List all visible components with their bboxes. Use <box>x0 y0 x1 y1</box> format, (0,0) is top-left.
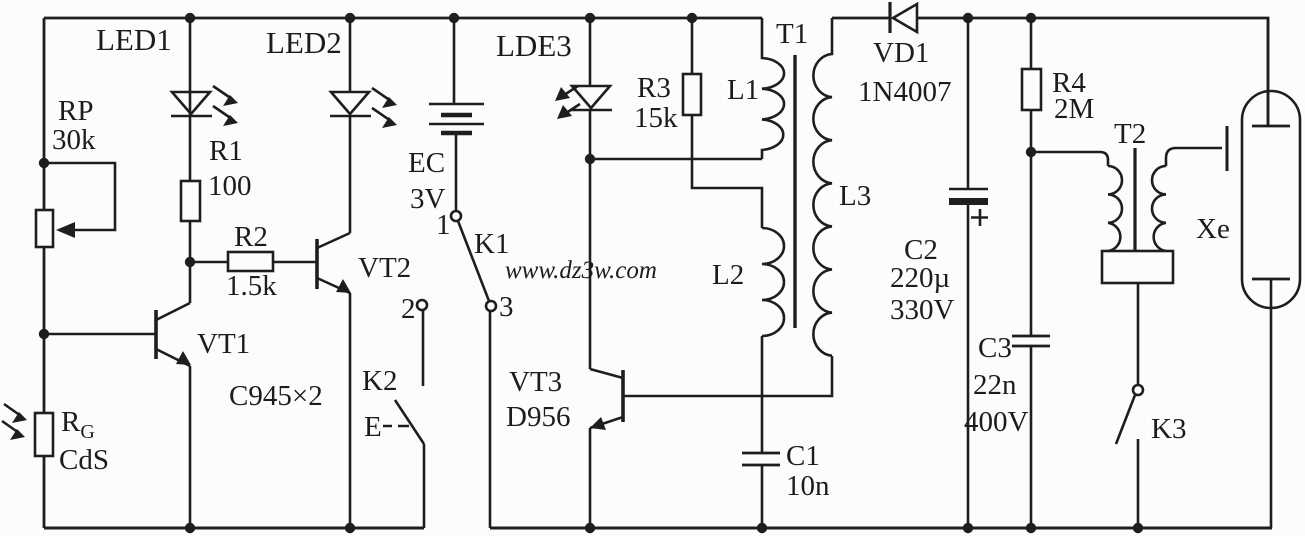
switch K3 blade <box>1116 395 1135 444</box>
inductor L2 (T1 primary lower) <box>762 228 784 336</box>
inductor L3 (T1 secondary) <box>813 18 832 356</box>
svg-text:R2: R2 <box>234 221 268 253</box>
wire R4 branch vertical <box>1030 18 1033 152</box>
wire top rail left section <box>44 17 762 20</box>
wire top rail right section (VD1 to xenon tube corner) <box>917 18 1268 126</box>
transformer T2 secondary coil <box>1152 166 1166 251</box>
svg-text:D956: D956 <box>506 401 570 433</box>
wire VT1 base horizontal <box>44 333 156 336</box>
svg-text:RG: RG <box>61 406 95 443</box>
svg-text:VT1: VT1 <box>197 328 250 360</box>
wire battery to K1 pole <box>455 133 458 211</box>
wire VT3 base to L3 bottom <box>623 356 832 396</box>
transformer T2 base box <box>1102 251 1173 283</box>
wire bottom rail right section <box>490 527 1272 530</box>
LED LED1 <box>172 92 210 114</box>
node top rail battery <box>449 13 459 23</box>
wire xenon tube bottom electrode stem <box>1270 279 1273 528</box>
battery EC 3V <box>429 103 484 106</box>
capacitor C2 (electrolytic) <box>949 188 988 191</box>
svg-text:C945×2: C945×2 <box>229 380 323 412</box>
svg-text:K2: K2 <box>362 365 397 397</box>
capacitor C1 <box>742 452 780 455</box>
wire K1 throw2 down to K2 <box>422 310 425 386</box>
xenon tube bottom electrode <box>1252 278 1290 281</box>
wire C2 branch vertical top <box>967 18 970 189</box>
transistor VT2 <box>315 239 319 289</box>
transformer T2 core <box>1133 148 1136 253</box>
svg-text:3: 3 <box>499 291 514 323</box>
switch K1 throw circle 3 <box>486 301 496 311</box>
svg-text:T2: T2 <box>1114 118 1146 150</box>
transistor VT3 <box>621 370 625 422</box>
photoresistor RG body <box>35 413 53 456</box>
switch K2 E dashes <box>383 425 409 428</box>
svg-text:100: 100 <box>208 170 252 202</box>
svg-text:LDE3: LDE3 <box>496 28 572 63</box>
wire RP wiper loop <box>44 163 115 230</box>
LED LED2 <box>331 92 369 114</box>
resistor R1 body <box>181 181 200 221</box>
xenon tube Xe envelope <box>1242 91 1300 308</box>
svg-text:220µ: 220µ <box>890 262 950 294</box>
svg-text:2M: 2M <box>1054 93 1094 125</box>
svg-text:T1: T1 <box>776 18 808 50</box>
wire R2 connections <box>190 261 317 264</box>
svg-text:1: 1 <box>436 209 451 241</box>
wire C1 bottom to ground rail <box>761 465 764 528</box>
wire R4 junction to T2 primary <box>1031 152 1108 166</box>
xenon tube trigger electrode bar <box>1226 126 1229 171</box>
svg-text:1.5k: 1.5k <box>226 270 277 302</box>
wire LED3 cathode to L1 bottom <box>590 158 762 161</box>
wire bottom rail left section <box>44 527 424 530</box>
wire K1 throw3 to right ground rail <box>489 311 492 528</box>
resistor R2 body <box>228 252 273 271</box>
svg-text:VT3: VT3 <box>509 366 562 398</box>
node LED3 cathode <box>585 154 595 164</box>
node ground C2 <box>963 523 973 533</box>
switch K3 pole circle <box>1133 385 1143 395</box>
svg-text:330V: 330V <box>890 294 955 326</box>
svg-text:L3: L3 <box>839 180 871 212</box>
svg-text:C3: C3 <box>978 332 1012 364</box>
svg-text:22n: 22n <box>973 369 1017 401</box>
capacitor C3 <box>1012 335 1050 338</box>
svg-text:LED2: LED2 <box>266 25 342 60</box>
node ground VT1 emitter <box>185 523 195 533</box>
svg-text:E: E <box>364 411 382 443</box>
svg-text:LED1: LED1 <box>96 22 172 57</box>
wire VT1 collector vertical <box>189 262 192 303</box>
switch K1 throw circle 2 <box>417 300 427 310</box>
node top rail R3 <box>687 13 697 23</box>
svg-text:C1: C1 <box>786 440 820 472</box>
svg-text:Xe: Xe <box>1196 213 1230 245</box>
wire top rail L3 to VD1 <box>832 17 891 20</box>
wire left edge vertical <box>43 18 46 528</box>
wire R4 junction down through C3 <box>1030 152 1033 528</box>
svg-text:10n: 10n <box>786 470 830 502</box>
wire C2 bottom to ground rail <box>967 204 970 528</box>
wire xenon tube top electrode stem <box>1267 18 1270 126</box>
LDE3 light arrows <box>555 86 580 119</box>
switch K1 pole circle 1 <box>451 211 461 221</box>
svg-text:R1: R1 <box>209 135 243 167</box>
node top rail LDE3 <box>585 13 595 23</box>
node ground C3 <box>1026 523 1036 533</box>
node R4 bottom T2 tap <box>1026 147 1036 157</box>
node top rail LED1 <box>185 13 195 23</box>
potentiometer RP body <box>36 210 53 247</box>
node ground VT2 emitter <box>345 523 355 533</box>
svg-text:K1: K1 <box>474 228 509 260</box>
transformer T2 primary coil <box>1108 166 1122 251</box>
svg-text:1N4007: 1N4007 <box>858 76 951 108</box>
node top rail C2 <box>963 13 973 23</box>
wire K2 to left ground rail <box>423 444 426 528</box>
svg-text:400V: 400V <box>964 406 1029 438</box>
node ground K3 <box>1133 523 1143 533</box>
resistor R3 body <box>683 74 701 115</box>
wire K3 lower contact to ground rail <box>1137 439 1140 528</box>
wire VT3 collector vertical <box>589 159 592 369</box>
wire battery branch vertical <box>453 18 456 104</box>
svg-text:CdS: CdS <box>59 444 109 476</box>
wire VT3 emitter vertical <box>589 428 592 528</box>
xenon tube top electrode <box>1252 125 1290 128</box>
svg-text:VT2: VT2 <box>358 252 411 284</box>
switch K2 blade <box>395 400 424 444</box>
svg-text:L2: L2 <box>712 259 744 291</box>
LED LDE3 <box>572 86 610 108</box>
capacitor C2 plus sign <box>971 209 988 226</box>
wire LED2 branch vertical <box>349 18 352 233</box>
resistor R4 body <box>1022 69 1041 110</box>
wire L2 bottom to C1 top <box>761 336 764 453</box>
wire VT1 emitter vertical <box>189 366 192 528</box>
node top rail LED2 <box>345 13 355 23</box>
node VT1 base tap <box>39 329 49 339</box>
svg-text:15k: 15k <box>634 102 678 134</box>
wire VT2 emitter vertical <box>349 293 352 528</box>
svg-text:EC: EC <box>408 147 445 179</box>
diode VD1 1N4007 <box>888 2 891 33</box>
LED2 light arrows <box>372 88 397 128</box>
transformer T1 core <box>793 55 796 328</box>
svg-text:2: 2 <box>401 293 416 325</box>
LED1 light arrows <box>213 86 238 126</box>
node ground C1 <box>757 523 767 533</box>
svg-text:L1: L1 <box>727 74 759 106</box>
wire T2 box to K3 <box>1137 283 1140 385</box>
svg-text:RP: RP <box>58 95 93 127</box>
svg-text:www.dz3w.com: www.dz3w.com <box>505 257 657 284</box>
node RP wiper tap <box>39 158 49 168</box>
wire R3 bottom to L2 top <box>692 115 762 228</box>
wire T2 secondary to trigger electrode <box>1166 148 1222 166</box>
transistor VT1 <box>154 310 158 359</box>
photoresistor RG light arrows <box>2 404 27 440</box>
svg-text:R3: R3 <box>637 72 671 104</box>
wire LED3 branch vertical <box>589 18 592 159</box>
node ground VT3 emitter <box>585 523 595 533</box>
svg-text:30k: 30k <box>52 124 96 156</box>
node top rail R4 <box>1026 13 1036 23</box>
potentiometer RP wiper arrowhead <box>56 222 75 238</box>
inductor L1 (T1 primary upper) <box>762 18 784 159</box>
svg-text:K3: K3 <box>1151 413 1186 445</box>
wire LED1 branch vertical <box>189 18 192 262</box>
node R1 R2 VT1 collector <box>185 257 195 267</box>
wire R3 top connection <box>691 18 694 74</box>
switch K1 blade <box>458 221 489 301</box>
svg-text:VD1: VD1 <box>873 37 929 69</box>
